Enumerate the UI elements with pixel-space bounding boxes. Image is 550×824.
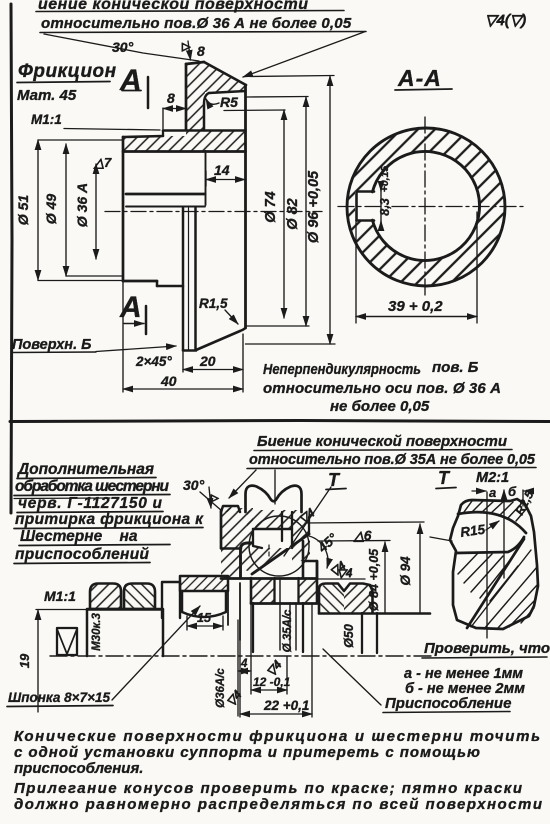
underline add 4 xyxy=(14,528,203,529)
key dim 15 line xyxy=(187,625,223,627)
section mark A top bar xyxy=(147,77,150,108)
dim 19 line xyxy=(37,610,39,712)
meas r25 arrow xyxy=(524,490,532,492)
fixture nut right half xyxy=(344,583,373,613)
svg-text:4: 4 xyxy=(240,658,248,670)
ring centerline vertical xyxy=(424,117,426,299)
svg-text:Ø 82: Ø 82 xyxy=(285,198,301,229)
arc 45deg xyxy=(309,536,328,568)
bore tube right xyxy=(194,208,197,350)
svg-text:а - не менее 1мм: а - не менее 1мм xyxy=(404,666,523,682)
dim d49 xyxy=(65,144,67,276)
leader 30deg lower xyxy=(200,492,222,511)
pocket top edge xyxy=(253,528,292,530)
dim 8 ext xyxy=(162,108,164,129)
bore tube left xyxy=(182,208,185,350)
svg-text:14: 14 xyxy=(214,162,230,178)
cone lip outline xyxy=(221,506,240,512)
rim inner vertical xyxy=(205,151,207,205)
keyway dim 8,3 line xyxy=(380,185,382,228)
ext d74 top xyxy=(224,109,285,112)
seat diagonal 45 xyxy=(252,534,309,574)
svg-text:△7: △7 xyxy=(93,155,112,170)
assembly axis xyxy=(50,655,432,657)
hatch cone block xyxy=(186,61,246,92)
block left edge xyxy=(185,64,188,130)
underline runout 1 xyxy=(254,450,512,451)
pocket left edge xyxy=(253,529,262,548)
ext d82 top xyxy=(247,96,308,99)
teeth bottom line xyxy=(87,608,160,611)
band top curve R15 xyxy=(458,512,526,533)
keyspec underline xyxy=(7,706,113,707)
svg-text:Поверхн. Б: Поверхн. Б xyxy=(12,337,91,353)
dim 12 line xyxy=(251,689,287,691)
svg-text:Ø 35А/с: Ø 35А/с xyxy=(282,609,294,652)
hub step edge xyxy=(157,285,183,288)
section mark A bottom arrow xyxy=(124,323,144,325)
hatch right wedge xyxy=(292,511,310,561)
ring inner circle xyxy=(372,152,479,261)
leader R1,5 xyxy=(225,310,238,324)
fillet R1.5 corner xyxy=(240,328,246,331)
dim 14 ext xyxy=(205,171,207,186)
svg-text:пов. Б: пов. Б xyxy=(432,359,479,376)
leader R5 xyxy=(206,99,219,104)
ext d96 top xyxy=(250,76,334,77)
ext d82 bottom xyxy=(246,325,310,327)
blob outline xyxy=(450,499,538,629)
dim 22 exts xyxy=(240,603,312,717)
underline fixture xyxy=(383,712,510,713)
cone left edge xyxy=(220,511,223,548)
dim d96 xyxy=(329,76,331,344)
underline surface B xyxy=(12,351,96,354)
hatch seat wedge xyxy=(242,534,308,573)
ring hatch annulus xyxy=(347,128,505,286)
meas r25 vline xyxy=(522,490,524,506)
top wedge hatch lines xyxy=(464,501,527,521)
svg-text:относительно пов.Ø 35А не боле: относительно пов.Ø 35А не более 0,05 xyxy=(249,452,536,468)
flange bore strip edges xyxy=(275,578,299,603)
leader runout to cone xyxy=(229,470,256,498)
svg-text:▽4(▽): ▽4(▽) xyxy=(485,12,526,29)
ext d36 xyxy=(237,620,239,716)
groove top edge xyxy=(209,91,246,93)
underline add 2b xyxy=(14,497,110,500)
bushing strip xyxy=(162,582,180,618)
svg-text:М30к.3: М30к.3 xyxy=(91,613,103,651)
svg-text:относительно пов.Ø 36 А не бол: относительно пов.Ø 36 А не более 0,05 xyxy=(41,15,352,32)
step corner xyxy=(303,561,317,578)
svg-text:с одной установки суппорта и п: с одной установки суппорта и притереть с… xyxy=(14,744,480,761)
leader surface B xyxy=(96,346,176,352)
mark tri4 on nut xyxy=(310,578,365,580)
wide hatch lines xyxy=(471,550,538,629)
underline A-A xyxy=(395,89,452,90)
keyspec leader xyxy=(112,606,200,700)
svg-text:Ø 74: Ø 74 xyxy=(263,191,279,222)
hub bottom edge xyxy=(123,280,157,283)
underline add 3 xyxy=(17,512,163,513)
key outline xyxy=(182,591,226,617)
ring centerline horizontal xyxy=(338,206,523,208)
svg-text:R15: R15 xyxy=(459,522,486,540)
flange row hatch xyxy=(251,578,317,603)
fixture column right xyxy=(376,613,378,653)
fixture column left xyxy=(361,613,363,653)
dim 20 line xyxy=(183,369,243,371)
ext line d51 bottom xyxy=(38,280,123,282)
svg-text:Ø 36 А: Ø 36 А xyxy=(74,183,90,227)
step vertical xyxy=(162,131,164,137)
meas a arrow xyxy=(472,490,486,492)
band bottom edge xyxy=(123,150,246,153)
shaft right line xyxy=(291,512,293,548)
dim d94 xyxy=(419,524,421,613)
svg-text:Приспособление: Приспособление xyxy=(385,695,511,712)
border left rule xyxy=(11,4,12,513)
cone lip top xyxy=(221,506,240,512)
svg-text:Биение конической поверхност: Биение конической поверхности xyxy=(257,433,507,450)
svg-text:Ø 94: Ø 94 xyxy=(398,556,413,586)
svg-text:А: А xyxy=(119,64,142,97)
seat box outline xyxy=(241,542,283,579)
leader from note to cone corner xyxy=(44,34,199,61)
flange right edge xyxy=(316,561,319,603)
svg-text:22 +0,1: 22 +0,1 xyxy=(263,698,309,713)
groove fillet R5 xyxy=(204,93,209,129)
svg-text:не более 0,05: не более 0,05 xyxy=(330,398,430,415)
svg-text:А-А: А-А xyxy=(397,65,442,91)
dim d36A xyxy=(95,164,97,259)
leader R15 xyxy=(486,521,499,530)
cone bottom edge xyxy=(221,577,317,580)
cone bottom slant xyxy=(196,331,240,350)
svg-text:Неперпендикулярность: Неперпендикулярность xyxy=(263,361,421,378)
pocket hidden line xyxy=(268,545,270,558)
seat box right edge xyxy=(302,541,305,578)
keyway dim arrow bottom xyxy=(380,221,382,229)
svg-text:Дополнительная: Дополнительная xyxy=(16,461,154,478)
svg-text:Ø50: Ø50 xyxy=(342,624,356,648)
keyway top edge xyxy=(357,190,375,193)
svg-text:45°: 45° xyxy=(314,530,340,556)
meas b arrow xyxy=(503,490,505,501)
underline title xyxy=(17,82,110,83)
below flange inner xyxy=(290,603,296,650)
dim 12 exts xyxy=(251,603,287,694)
part right face xyxy=(244,85,247,328)
svg-text:2×45°: 2×45° xyxy=(135,354,172,369)
dim 39 ext left xyxy=(355,222,357,323)
thread end triangle xyxy=(57,629,77,654)
section mark A top tick xyxy=(122,90,141,92)
hatch flange band xyxy=(124,130,246,151)
leader T xyxy=(284,487,331,556)
hub line mid xyxy=(126,193,205,196)
ext line d51 top xyxy=(38,139,123,141)
svg-text:Конические поверхности фрикц: Конические поверхности фрикциона и шесте… xyxy=(14,728,540,745)
svg-text:должно равномерно распределять: должно равномерно распределяться по всей… xyxy=(14,796,542,813)
below flange left xyxy=(252,603,254,652)
ext d94 xyxy=(305,522,424,523)
hatch under saddle xyxy=(247,510,299,529)
svg-text:R1,5: R1,5 xyxy=(199,296,228,311)
angle tick with arrow xyxy=(188,41,191,60)
svg-text:30°: 30° xyxy=(112,39,134,55)
flange bore thin line xyxy=(279,579,281,650)
hatch cone left column xyxy=(221,508,242,578)
svg-text:8: 8 xyxy=(167,90,175,106)
keyway dim arrow top xyxy=(380,183,382,191)
svg-text:Т: Т xyxy=(438,468,451,488)
underline add 5 xyxy=(19,545,170,546)
bore tip xyxy=(183,349,196,352)
svg-text:обработка шестерни: обработка шестерни xyxy=(15,478,170,495)
svg-text:Ø 84 +0,05: Ø 84 +0,05 xyxy=(367,548,381,611)
svg-text:▷: ▷ xyxy=(211,493,219,504)
dim 40 line xyxy=(123,388,243,390)
key dim 15 exts xyxy=(187,616,223,630)
part top flat xyxy=(186,62,204,64)
keyway bottom edge xyxy=(357,219,375,222)
mid strip hatch lines xyxy=(458,553,518,601)
dim 19 ext xyxy=(36,609,87,611)
svg-text:R5: R5 xyxy=(220,94,238,110)
below flange right xyxy=(302,603,304,652)
dim 20 ext right xyxy=(242,334,244,392)
dim 22 line xyxy=(240,713,312,715)
ext d84 xyxy=(318,540,390,543)
band bottom edge xyxy=(456,537,524,553)
bore tube mid xyxy=(188,208,190,350)
hatch left of fillet xyxy=(186,92,205,130)
gear tooth 1 xyxy=(90,584,121,610)
section mark A bottom bar xyxy=(145,306,148,334)
keyway left edge xyxy=(355,192,358,221)
dim 39 line xyxy=(356,316,477,318)
svg-text:19: 19 xyxy=(17,653,32,668)
svg-text:Шпонка 8×7×15: Шпонка 8×7×15 xyxy=(8,690,110,705)
svg-text:М2:1: М2:1 xyxy=(476,470,509,486)
ext line d49 top xyxy=(64,129,160,131)
dim 4 line xyxy=(238,670,251,672)
centerline axis xyxy=(105,211,322,213)
ext line d49 bottom xyxy=(66,275,123,277)
hatch cone left upper xyxy=(242,508,254,544)
underline check xyxy=(422,657,547,658)
svg-text:А: А xyxy=(119,291,142,324)
flange left edge xyxy=(250,578,253,603)
hub rect xyxy=(87,609,163,656)
fixture plate line xyxy=(319,612,430,615)
underline add 1 xyxy=(17,478,156,479)
fixture nut outline xyxy=(319,584,373,614)
leader from note right end to cone face with arrow xyxy=(243,32,364,77)
thick diagonal bore edge xyxy=(467,539,524,628)
underline add 6 xyxy=(14,563,150,564)
detail circle T xyxy=(249,516,309,576)
svg-text:8: 8 xyxy=(197,43,205,59)
svg-text:приспособления.: приспособления. xyxy=(14,760,143,777)
keyway white pocket xyxy=(355,191,377,221)
svg-text:относительно оси пов. Ø 3: относительно оси пов. Ø 36 А xyxy=(263,380,501,397)
dim d82 xyxy=(305,97,307,326)
svg-text:Ø 49: Ø 49 xyxy=(43,194,59,225)
ext d96 bottom xyxy=(246,343,336,345)
shaft step lines xyxy=(228,583,240,640)
saddle part outline xyxy=(246,486,302,512)
hub step vertical xyxy=(156,281,159,286)
svg-text:М1:1: М1:1 xyxy=(31,112,62,127)
svg-text:Ø 96 +0,05: Ø 96 +0,05 xyxy=(306,170,322,243)
fixture nut left half xyxy=(319,583,344,613)
underline add 2 xyxy=(14,495,170,496)
groove bottom edge xyxy=(163,129,246,132)
svg-text:Мат. 45: Мат. 45 xyxy=(17,87,77,104)
wedge right edge xyxy=(308,517,310,534)
svg-text:+0,15: +0,15 xyxy=(379,166,391,193)
dim 8 line xyxy=(163,108,186,110)
leader left thin xyxy=(430,537,452,541)
underline T detail xyxy=(436,488,456,489)
meas a vline xyxy=(486,492,488,638)
key block hatch xyxy=(180,576,228,591)
shaft left line xyxy=(281,512,283,541)
hub line lower xyxy=(126,206,205,208)
dim 39 ext right xyxy=(476,212,478,323)
divider rule xyxy=(10,421,550,422)
svg-text:Шестерне на: Шестерне на xyxy=(20,528,138,545)
thread end rect xyxy=(57,628,77,655)
band top edge left xyxy=(123,136,163,137)
dim 14 line xyxy=(206,179,245,181)
underline runout 2 xyxy=(247,468,536,469)
dim 20 ext left xyxy=(182,352,184,372)
underline note line 1 xyxy=(36,11,344,12)
svg-text:15: 15 xyxy=(197,611,212,625)
cone slant face xyxy=(204,62,246,85)
dim d51 xyxy=(37,140,39,280)
svg-text:приспособлений: приспособлений xyxy=(15,546,150,563)
svg-text:а: а xyxy=(489,485,496,500)
gear tooth 2 xyxy=(124,584,155,610)
meas b vline xyxy=(503,492,505,578)
svg-text:притирка фрикциона к: притирка фрикциона к xyxy=(15,511,204,528)
dim d74 xyxy=(283,110,285,318)
svg-text:Прилегание конусов проверить п: Прилегание конусов проверить по краске; … xyxy=(14,780,522,797)
underline note line 2 xyxy=(40,32,366,33)
svg-text:б: б xyxy=(508,484,517,499)
hub left edge xyxy=(122,137,125,281)
svg-text:Проверить, что:: Проверить, что: xyxy=(424,640,550,657)
leader fixture xyxy=(323,649,381,705)
svg-text:черв. Г-1127150 и: черв. Г-1127150 и xyxy=(18,495,163,512)
svg-text:30°: 30° xyxy=(183,477,205,493)
ring outer circle xyxy=(347,128,505,286)
flange bore white strip xyxy=(275,577,299,603)
svg-text:20: 20 xyxy=(199,353,216,369)
cone left step xyxy=(221,547,241,550)
svg-text:△6: △6 xyxy=(353,528,372,543)
svg-text:М1:1: М1:1 xyxy=(44,588,76,604)
pocket white xyxy=(253,529,292,548)
svg-text:39 + 0,2: 39 + 0,2 xyxy=(388,298,443,315)
svg-text:Т: Т xyxy=(328,470,341,490)
underline T lower xyxy=(326,489,346,490)
svg-text:Фрикцион: Фрикцион xyxy=(18,61,117,82)
flange bottom edge xyxy=(251,602,317,605)
dim 40 ext left xyxy=(122,281,124,392)
center leader vertical xyxy=(274,470,276,504)
dim d84 xyxy=(384,542,386,613)
svg-text:Ø 51: Ø 51 xyxy=(15,195,31,226)
tick 30deg arrow xyxy=(209,487,211,508)
svg-text:40: 40 xyxy=(160,373,177,389)
